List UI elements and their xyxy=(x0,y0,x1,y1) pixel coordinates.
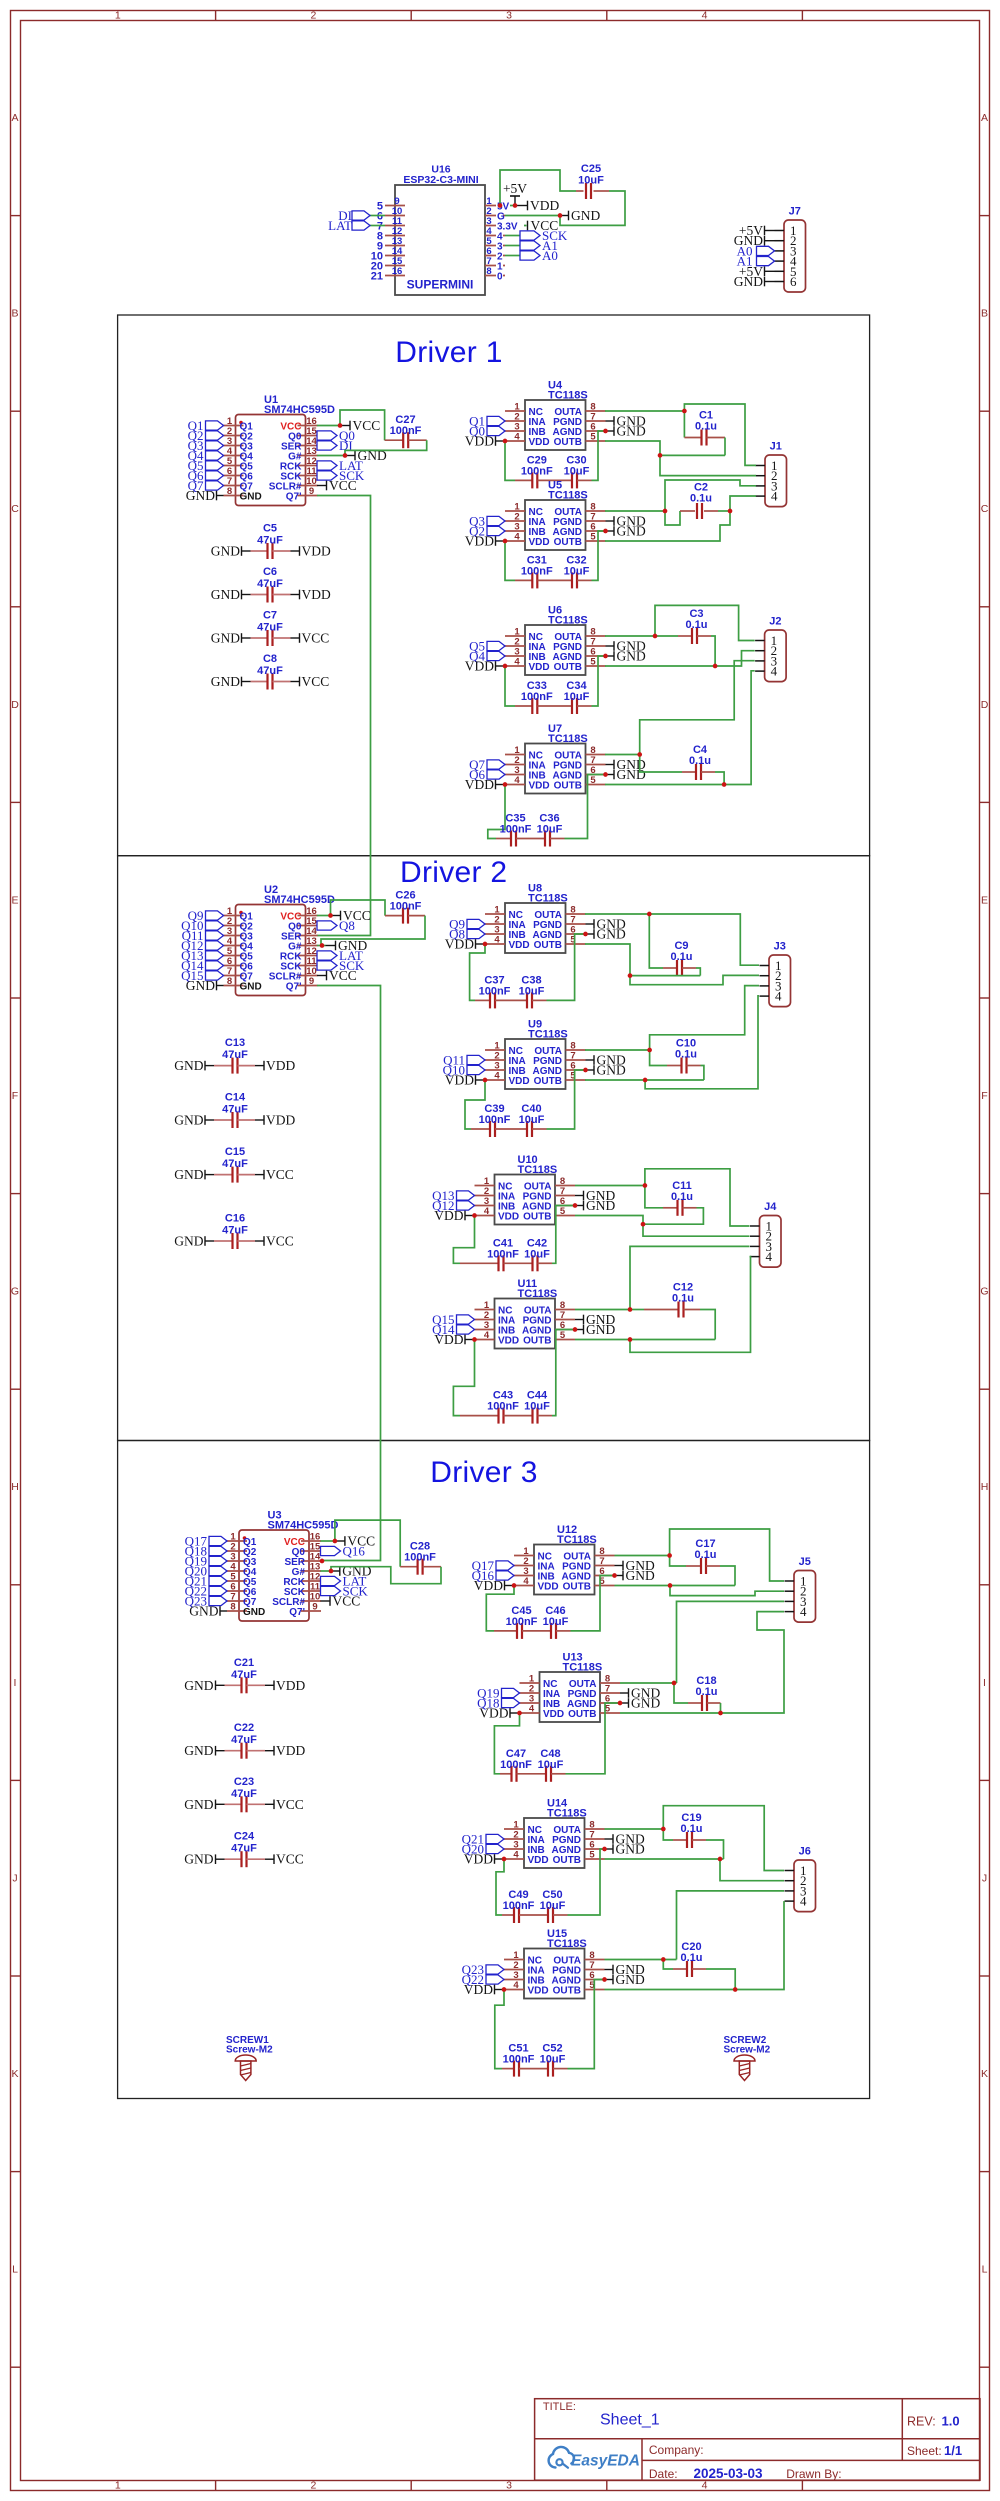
motor driver U6 TC118S xyxy=(505,605,606,676)
svg-text:21: 21 xyxy=(371,271,383,283)
svg-text:Sheet:: Sheet: xyxy=(907,2444,942,2458)
svg-text:J6: J6 xyxy=(799,1846,811,1858)
svg-text:VCC: VCC xyxy=(333,1594,361,1609)
svg-text:GND: GND xyxy=(734,274,763,289)
net flag Q17 INA xyxy=(472,1558,514,1573)
power flag VDD xyxy=(464,1982,504,1997)
wire U8 OUTB to J3 pin2 xyxy=(630,975,759,984)
net flag Q22 input xyxy=(185,1584,227,1599)
power flag VDD xyxy=(445,1073,485,1088)
power flag VDD xyxy=(464,1852,504,1867)
motor driver U5 TC118S xyxy=(505,480,606,551)
svg-text:C23: C23 xyxy=(234,1776,254,1788)
capacitor C49 100nF xyxy=(496,1859,535,1923)
junction U10 outputs xyxy=(641,1183,648,1226)
junction U13 outputs xyxy=(672,1681,723,1716)
svg-text:5: 5 xyxy=(590,432,596,443)
motor driver U4 TC118S xyxy=(505,380,606,451)
power flag VCC pin3 xyxy=(528,218,559,233)
svg-text:A0: A0 xyxy=(542,248,558,263)
svg-text:C16: C16 xyxy=(225,1213,245,1225)
svg-text:Company:: Company: xyxy=(649,2443,704,2457)
svg-text:4: 4 xyxy=(702,2480,708,2492)
junction U8 outputs xyxy=(628,912,652,978)
svg-text:J3: J3 xyxy=(774,941,786,953)
svg-text:J7: J7 xyxy=(789,206,801,218)
svg-text:C25: C25 xyxy=(581,163,601,175)
net flag Q14 INB xyxy=(432,1322,474,1337)
wire U6 OUTA to J2 pin1 xyxy=(655,605,755,640)
svg-text:L: L xyxy=(12,2264,18,2276)
svg-text:VDD: VDD xyxy=(479,1706,508,1721)
power flag VCC U1 pin16 xyxy=(340,418,380,433)
net flag SCK U2 pin11 xyxy=(317,958,365,973)
net flag Q8 INB xyxy=(449,927,485,942)
svg-text:C: C xyxy=(11,503,19,515)
wire U13 OUTA xyxy=(620,1682,677,1684)
svg-text:C8: C8 xyxy=(263,653,277,665)
capacitor C11 0.1u xyxy=(643,1180,703,1224)
net flag Q21 input xyxy=(185,1574,227,1589)
svg-text:A: A xyxy=(11,112,18,124)
svg-text:3: 3 xyxy=(506,2480,512,2492)
svg-text:0.1u: 0.1u xyxy=(685,619,707,631)
net flag LAT U2 pin12 xyxy=(317,948,363,963)
capacitor C18 0.1u xyxy=(674,1675,721,1713)
net flag Q15 INA xyxy=(432,1312,474,1327)
svg-text:I: I xyxy=(983,1677,986,1689)
svg-text:Screw-M2: Screw-M2 xyxy=(226,2045,273,2056)
ground flag GND U3 pin13 xyxy=(330,1564,372,1579)
capacitor C51 100nF xyxy=(495,1990,535,2077)
svg-text:OUTB: OUTB xyxy=(534,1076,562,1087)
svg-text:GND: GND xyxy=(174,1058,203,1073)
wire U8 OUTA to J3 pin1 xyxy=(649,914,759,965)
svg-text:OUTB: OUTB xyxy=(523,1211,551,1222)
svg-text:F: F xyxy=(981,1090,987,1102)
Driver 2 region box xyxy=(118,856,870,1441)
svg-text:Driver 2: Driver 2 xyxy=(400,856,507,889)
svg-text:OUTB: OUTB xyxy=(554,780,582,791)
wire U9 OUTA xyxy=(585,1049,650,1051)
svg-text:GND: GND xyxy=(174,1234,203,1249)
capacitor C2 0.1u xyxy=(665,482,730,526)
junction U15 outputs xyxy=(661,1957,738,1992)
svg-text:0.1u: 0.1u xyxy=(671,1191,693,1203)
net flag Q4 INB xyxy=(469,649,505,664)
junction dots VDD / AGND xyxy=(503,429,608,444)
svg-text:5: 5 xyxy=(590,532,596,543)
net flag Q17 input xyxy=(185,1534,227,1549)
svg-text:H: H xyxy=(11,1481,19,1493)
svg-text:1.0: 1.0 xyxy=(942,2413,960,2428)
svg-text:4: 4 xyxy=(514,432,520,443)
svg-text:47uF: 47uF xyxy=(222,1225,248,1237)
svg-text:OUTB: OUTB xyxy=(554,662,582,673)
ground flag GND AGND xyxy=(615,1568,655,1583)
svg-text:OUTB: OUTB xyxy=(523,1335,551,1346)
net flag Q16 U3 pin15 xyxy=(321,1544,366,1559)
svg-text:A: A xyxy=(981,112,988,124)
svg-text:GND: GND xyxy=(616,1842,645,1857)
connector J7 xyxy=(775,206,806,293)
svg-text:C7: C7 xyxy=(263,610,277,622)
junction dots VDD / AGND xyxy=(503,772,608,787)
svg-text:6: 6 xyxy=(790,274,797,289)
capacitor C35 100nF xyxy=(488,785,532,847)
net flag Q19 INA xyxy=(477,1686,519,1701)
power flag VDD xyxy=(474,1578,514,1593)
svg-text:VDD: VDD xyxy=(465,534,494,549)
svg-text:GND: GND xyxy=(597,927,626,942)
junction U3 VCC/GND/SER xyxy=(320,1539,338,1574)
wire C3 to OUTB xyxy=(711,636,715,666)
wire U14 OUTB xyxy=(605,1858,724,1860)
wire C2 to J1 pin4 xyxy=(730,496,756,511)
net flag Q18 INB xyxy=(477,1696,519,1711)
svg-text:VCC: VCC xyxy=(302,631,330,646)
net flag Q23 INA xyxy=(462,1962,504,1977)
wire U5 OUTB to C2 xyxy=(605,511,730,541)
capacitor C23 47uF xyxy=(184,1776,304,1813)
wire U1 pin16 VCC xyxy=(317,425,340,427)
svg-text:Sheet_1: Sheet_1 xyxy=(600,2412,660,2429)
svg-text:GND: GND xyxy=(586,1198,615,1213)
svg-text:47uF: 47uF xyxy=(257,578,283,590)
wire U3 pin13 G# xyxy=(321,1570,330,1572)
junction U4 outputs xyxy=(658,409,687,458)
svg-text:OUTB: OUTB xyxy=(553,1855,581,1866)
svg-text:B: B xyxy=(981,308,988,320)
ground flag GND AGND xyxy=(605,1972,645,1987)
capacitor C8 47uF xyxy=(211,653,330,690)
power flag VDD pin1 xyxy=(515,198,559,213)
power flag VCC U3 pin10 xyxy=(321,1594,361,1609)
connector J2 xyxy=(755,616,786,682)
svg-text:C14: C14 xyxy=(225,1092,246,1104)
net flag Q12 input xyxy=(181,938,223,953)
capacitor C50 10uF xyxy=(519,1849,605,1923)
net flag Q10 input xyxy=(181,918,223,933)
svg-text:GND: GND xyxy=(211,674,240,689)
wire U14 OUTB to J6 pin2 xyxy=(720,1859,784,1881)
svg-text:4: 4 xyxy=(800,1604,807,1619)
svg-text:VDD: VDD xyxy=(465,777,494,792)
svg-text:100nF: 100nF xyxy=(479,1114,511,1126)
ground flag GND U2 pin13 xyxy=(326,938,368,953)
svg-text:GND: GND xyxy=(626,1568,655,1583)
wire U6 OUTB to J2 pin2 xyxy=(605,651,755,666)
junction dots VDD / AGND xyxy=(517,1701,622,1716)
svg-text:Drawn By:: Drawn By: xyxy=(786,2467,841,2481)
Driver 2 title xyxy=(400,856,507,889)
net flag DI xyxy=(338,208,385,223)
capacitor C21 47uF xyxy=(184,1657,305,1694)
svg-text:GND: GND xyxy=(184,1852,213,1867)
net flag Q16 INB xyxy=(472,1568,514,1583)
capacitor C26 100nF xyxy=(321,890,425,946)
svg-text:4: 4 xyxy=(514,775,520,786)
svg-text:4: 4 xyxy=(529,1704,535,1715)
svg-text:0.1u: 0.1u xyxy=(695,1686,717,1698)
wire U8 OUTB xyxy=(585,944,630,976)
svg-text:GND: GND xyxy=(631,1696,660,1711)
net flag Q3 INA xyxy=(469,514,505,529)
svg-text:10uF: 10uF xyxy=(524,1248,550,1260)
svg-text:H: H xyxy=(981,1481,989,1493)
net flag Q13 input xyxy=(181,948,223,963)
svg-text:0.1u: 0.1u xyxy=(694,1549,716,1561)
svg-text:J5: J5 xyxy=(799,1556,811,1568)
wire U4 OUTA to J1 pin1 xyxy=(684,404,756,465)
svg-text:GND: GND xyxy=(186,978,215,993)
shift register U3 SM74HC595D xyxy=(227,1510,338,1622)
junction U7 outputs xyxy=(637,752,726,787)
ground flag GND AGND xyxy=(586,927,626,942)
svg-text:GND: GND xyxy=(617,424,646,439)
svg-text:2: 2 xyxy=(310,10,316,22)
svg-text:GND: GND xyxy=(617,649,646,664)
power flag VCC U2 pin10 xyxy=(317,968,357,983)
svg-text:VDD: VDD xyxy=(465,434,494,449)
svg-text:REV:: REV: xyxy=(907,2414,936,2428)
svg-text:Screw-M2: Screw-M2 xyxy=(724,2045,771,2056)
svg-text:10uF: 10uF xyxy=(519,985,545,997)
capacitor C34 10uF xyxy=(537,656,605,714)
capacitor C1 0.1u xyxy=(684,410,725,456)
ground flag GND PGND xyxy=(575,1312,615,1327)
svg-text:VDD: VDD xyxy=(464,1982,493,1997)
svg-text:D: D xyxy=(11,699,19,711)
svg-text:47uF: 47uF xyxy=(222,1049,248,1061)
svg-text:10uF: 10uF xyxy=(564,691,590,703)
net flag Q22 INB xyxy=(462,1972,504,1987)
svg-text:GND: GND xyxy=(597,1063,626,1078)
svg-text:47uF: 47uF xyxy=(257,622,283,634)
svg-text:100nF: 100nF xyxy=(521,465,553,477)
svg-text:Q7': Q7' xyxy=(286,491,302,502)
svg-text:9: 9 xyxy=(309,486,314,497)
net flag A0 pin6 xyxy=(505,248,558,263)
svg-text:4: 4 xyxy=(771,664,778,679)
capacitor C3 0.1u xyxy=(678,608,711,644)
svg-text:0: 0 xyxy=(497,271,503,282)
svg-text:4: 4 xyxy=(766,1249,773,1264)
net flag Q15 input xyxy=(181,968,223,983)
capacitor C16 47uF xyxy=(174,1213,294,1250)
net flag Q0 INB xyxy=(469,424,505,439)
svg-text:VCC: VCC xyxy=(353,418,381,433)
svg-text:J4: J4 xyxy=(764,1201,777,1213)
ground flag GND 595 pin8 xyxy=(186,488,224,503)
ground flag GND PGND xyxy=(605,1962,645,1977)
svg-text:C5: C5 xyxy=(263,523,277,535)
svg-text:GND: GND xyxy=(184,1678,213,1693)
svg-text:VDD: VDD xyxy=(276,1678,305,1693)
capacitor C47 100nF xyxy=(494,1713,532,1782)
svg-text:4: 4 xyxy=(494,1071,500,1082)
wire J5 pin3 to U13 OUTA xyxy=(677,1601,785,1683)
net flag Q19 input xyxy=(185,1554,227,1569)
wire U9 OUTB to J3 pin4 xyxy=(645,996,759,1089)
wire U2 pin16 VCC xyxy=(317,915,331,917)
capacitor C33 100nF xyxy=(505,666,553,714)
svg-text:B: B xyxy=(11,308,18,320)
svg-text:VDD: VDD xyxy=(509,1076,530,1087)
net flag Q14 input xyxy=(181,958,223,973)
capacitor C27 100nF xyxy=(340,410,427,456)
svg-text:8: 8 xyxy=(230,1602,235,1613)
svg-text:VDD: VDD xyxy=(498,1211,519,1222)
capacitor C20 0.1u xyxy=(663,1941,735,1990)
wire U2 pin13 G# xyxy=(317,945,326,947)
net flag LAT U3 pin12 xyxy=(321,1574,367,1589)
svg-text:47uF: 47uF xyxy=(222,1104,248,1116)
net flag A1 J7 pin4 xyxy=(737,254,775,269)
net flag Q0 U1 pin15 xyxy=(317,428,355,443)
Driver 3 region box xyxy=(118,1441,870,2099)
svg-text:4: 4 xyxy=(484,1206,490,1217)
svg-text:0.1u: 0.1u xyxy=(672,1293,694,1305)
capacitor C22 47uF xyxy=(184,1722,305,1759)
net flag Q11 input xyxy=(182,928,224,943)
wire U9 OUTA to J3 pin3 xyxy=(650,986,759,1050)
svg-text:VDD: VDD xyxy=(528,1985,549,1996)
power flag VDD xyxy=(434,1208,474,1223)
power flag +5V J7 pin5 xyxy=(739,264,775,279)
shift register U1 SM74HC595D xyxy=(224,394,335,506)
wire OUTB to C9 xyxy=(630,975,700,977)
svg-text:4: 4 xyxy=(494,935,500,946)
svg-text:10uF: 10uF xyxy=(524,1401,550,1413)
svg-text:VCC: VCC xyxy=(266,1234,294,1249)
capacitor C17 0.1u xyxy=(670,1538,735,1586)
svg-text:0.1u: 0.1u xyxy=(689,755,711,767)
svg-text:VDD: VDD xyxy=(543,1709,564,1720)
wire U11 OUTB xyxy=(575,1339,715,1341)
ground flag GND AGND xyxy=(586,1063,626,1078)
EasyEDA logo xyxy=(549,2447,640,2470)
net flag Q7 input xyxy=(188,478,224,493)
wire U11 OUTA to C12 xyxy=(630,1309,644,1311)
wire pin2 G to GND xyxy=(505,215,560,217)
svg-text:1: 1 xyxy=(115,10,121,22)
power flag VCC U3 pin16 xyxy=(335,1534,375,1549)
svg-text:C13: C13 xyxy=(225,1037,245,1049)
net flag Q20 input xyxy=(185,1564,227,1579)
svg-text:TITLE:: TITLE: xyxy=(543,2401,576,2413)
wire U15 OUTA xyxy=(605,1959,677,1961)
capacitor C32 10uF xyxy=(537,531,605,588)
ground flag GND AGND xyxy=(605,1842,645,1857)
ground flag GND 595 pin8 xyxy=(189,1604,227,1619)
ground flag GND PGND xyxy=(606,639,646,654)
svg-text:5: 5 xyxy=(560,1206,566,1217)
junction dots VDD / AGND xyxy=(503,654,608,669)
net flag Q7 INA xyxy=(469,757,505,772)
svg-text:GND: GND xyxy=(174,1113,203,1128)
svg-text:100nF: 100nF xyxy=(521,691,553,703)
svg-text:VCC: VCC xyxy=(329,968,357,983)
power flag VDD xyxy=(465,534,505,549)
svg-text:Driver 1: Driver 1 xyxy=(395,336,502,369)
Driver 1 region box xyxy=(118,315,870,856)
net flag Q8 U2 pin15 xyxy=(317,918,355,933)
net flag SCK U3 pin11 xyxy=(321,1584,369,1599)
svg-text:100nF: 100nF xyxy=(500,824,532,836)
capacitor C12 0.1u xyxy=(644,1282,715,1340)
mounting hole SCREW1 Screw-M2 xyxy=(226,2035,273,2081)
junction dots VDD / AGND xyxy=(483,1068,588,1083)
svg-text:0.1u: 0.1u xyxy=(690,493,712,505)
svg-text:VDD: VDD xyxy=(434,1208,463,1223)
svg-text:5: 5 xyxy=(590,775,596,786)
motor driver U7 TC118S xyxy=(505,723,606,794)
svg-text:100nF: 100nF xyxy=(487,1401,519,1413)
capacitor C15 47uF xyxy=(174,1146,294,1183)
net flag LAT xyxy=(328,218,385,233)
wire U14 OUTA xyxy=(605,1828,664,1830)
wire pin1 5V xyxy=(505,205,515,207)
capacitor C41 100nF xyxy=(453,1216,519,1272)
net flag Q9 input xyxy=(188,908,224,923)
svg-text:VDD: VDD xyxy=(509,940,530,951)
motor driver U12 TC118S xyxy=(514,1524,615,1595)
connector J1 xyxy=(756,441,787,507)
svg-text:VDD: VDD xyxy=(528,1855,549,1866)
svg-text:47uF: 47uF xyxy=(222,1158,248,1170)
svg-text:+5V: +5V xyxy=(503,181,527,196)
power flag VCC U2 pin16 xyxy=(331,908,371,923)
svg-text:Q7': Q7' xyxy=(289,1607,305,1618)
svg-text:10uF: 10uF xyxy=(540,1900,566,1912)
wire U4 OUTB xyxy=(605,441,660,455)
svg-text:4: 4 xyxy=(771,489,778,504)
svg-text:J: J xyxy=(982,1872,987,1884)
capacitor C28 100nF xyxy=(331,1520,441,1584)
svg-text:G: G xyxy=(11,1286,19,1298)
svg-text:10uF: 10uF xyxy=(543,1616,569,1628)
capacitor C37 100nF xyxy=(470,944,511,1008)
svg-text:4: 4 xyxy=(514,532,520,543)
junction U2 VCC/GND xyxy=(320,913,333,948)
svg-text:C24: C24 xyxy=(234,1831,255,1843)
capacitor C42 10uF xyxy=(504,1206,576,1272)
svg-text:C22: C22 xyxy=(234,1722,254,1734)
shift register U2 SM74HC595D xyxy=(224,884,335,996)
ground flag GND PGND xyxy=(575,1188,615,1203)
net flag Q23 input xyxy=(185,1594,227,1609)
wire U3 pin16 VCC xyxy=(321,1540,335,1542)
junction U12 outputs xyxy=(667,1553,672,1588)
junction U11 outputs xyxy=(628,1307,633,1342)
ground flag GND pin2 xyxy=(560,208,600,223)
ground flag GND PGND xyxy=(586,917,626,932)
junction dots VDD / AGND xyxy=(483,932,588,947)
svg-text:4: 4 xyxy=(775,989,782,1004)
motor driver U9 TC118S xyxy=(485,1019,586,1090)
wire U12 OUTB xyxy=(615,1585,736,1587)
svg-text:9: 9 xyxy=(312,1602,317,1613)
wire U12 OUTB to J5 pin2 xyxy=(670,1586,784,1596)
svg-text:VDD: VDD xyxy=(474,1578,503,1593)
wire U1 Q7' to U2 SER xyxy=(317,496,371,936)
svg-text:100nF: 100nF xyxy=(390,425,422,437)
svg-text:J1: J1 xyxy=(770,441,782,453)
power flag VDD xyxy=(465,777,505,792)
wire U5 OUTA xyxy=(605,510,665,512)
net flag A0 J7 pin3 xyxy=(737,243,775,258)
